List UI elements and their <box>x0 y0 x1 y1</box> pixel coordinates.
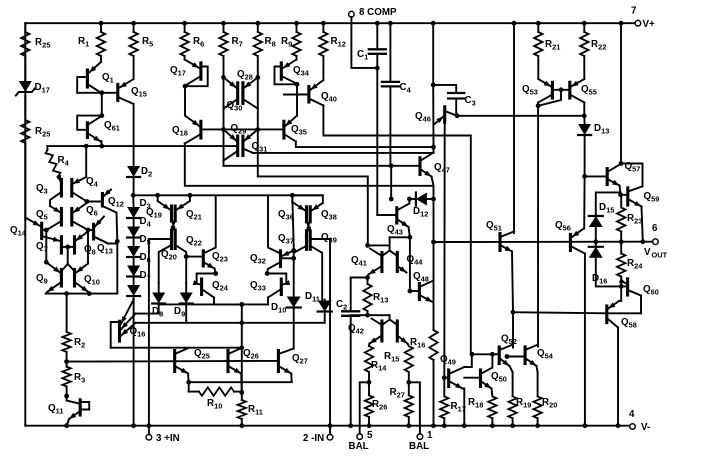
wire D8 D9 to Q24 node <box>159 303 242 305</box>
wire Q51 emitter to Q58 base <box>512 252 607 314</box>
diode D8 <box>158 283 160 293</box>
wire quad center link <box>67 247 69 264</box>
node 5 BAL terminal <box>357 434 363 440</box>
wire right quad column <box>94 237 108 244</box>
node 7 V+ terminal <box>635 20 641 26</box>
capacitor C4 <box>388 21 393 26</box>
svg-text:V-: V- <box>641 422 650 433</box>
wire Q16 collector bus to Q25 Q26 <box>111 347 242 349</box>
resistor R20 <box>537 372 539 396</box>
resistor R9 <box>294 21 299 26</box>
node 2 -IN terminal <box>327 434 333 440</box>
wire Q39 collector to D11 <box>310 246 322 300</box>
wire Q54 emitter to R20 <box>537 366 538 372</box>
wire Q25 emitter to R10 <box>187 374 190 392</box>
wire Q27 emitter return <box>189 374 292 383</box>
wire Q50 collector to Q52 base <box>491 354 493 367</box>
wire Q57 emitter to Q59 base <box>620 186 627 195</box>
wire -IN input column <box>312 239 330 426</box>
wire Q9 emitter to bus <box>47 282 61 292</box>
wire D8 to Q16 <box>136 304 159 314</box>
transistor Q48 <box>418 284 421 300</box>
wire +IN input column <box>149 239 170 426</box>
transistor Q58 <box>605 306 608 323</box>
resistor R19 <box>512 372 514 396</box>
wire C1 column to Q43 base <box>376 68 378 215</box>
transistor Q54 <box>524 347 527 364</box>
wire Q3 Q5 left link <box>50 192 61 206</box>
transistor Q40 <box>307 87 310 102</box>
svg-text:3 +IN: 3 +IN <box>156 433 180 444</box>
wire Q55 collector to D13 <box>570 95 585 103</box>
svg-text:V: V <box>644 247 651 258</box>
transistor Q51 <box>498 234 501 251</box>
transistor pair Q9 Q10 <box>60 270 63 287</box>
transistor Q61 <box>86 123 89 138</box>
svg-text:BAL: BAL <box>409 441 429 452</box>
wire D9 down <box>185 304 187 323</box>
transistor Q11 <box>66 387 68 397</box>
capacitor C2 <box>350 278 352 312</box>
transistor Q14 <box>40 223 43 238</box>
resistor R2 <box>66 294 68 332</box>
wire main column down through D12 Q48 R16 <box>433 186 435 242</box>
resistor R5 <box>131 21 136 26</box>
svg-text:V+: V+ <box>643 19 656 30</box>
wire Q8 feed <box>76 232 88 241</box>
wire Q19-Q22 cross links <box>172 218 176 233</box>
wire Q49 base column <box>444 377 447 379</box>
transistor Q57 <box>606 169 609 185</box>
svg-text:2 -IN: 2 -IN <box>303 433 324 444</box>
wire Q26 emitter column <box>240 374 243 393</box>
svg-text:BAL: BAL <box>349 441 369 452</box>
wire Q58 collector to V- <box>617 328 619 426</box>
resistor R27 <box>408 372 410 395</box>
wire Q19 emitter feed <box>157 195 159 201</box>
resistor R4 <box>46 146 48 150</box>
transistor pair Q5 Q6 <box>60 209 63 226</box>
wire Q52 base bus <box>472 353 498 355</box>
wire Q36-Q39 cross links <box>307 219 311 234</box>
wire Q36 emitter feed <box>291 195 293 202</box>
wire Q56 collector to V- <box>584 254 586 426</box>
resistor R10 <box>189 391 199 393</box>
transistor pair Q7 Q8 <box>60 237 63 253</box>
wire Q60 collector down <box>640 296 642 314</box>
node 3 +IN terminal <box>146 434 152 440</box>
transistor Q46 <box>443 107 446 123</box>
wire COMP to C1 bottom <box>351 17 377 68</box>
node 8 COMP terminal <box>349 11 355 17</box>
wire V+ top rail <box>25 22 634 24</box>
diode D6 <box>133 257 135 266</box>
wire D13 to Q57 base <box>582 174 587 179</box>
wire Q46 base column to Q49 <box>443 122 445 377</box>
transistor Q25 <box>173 351 176 372</box>
transistor Q34 <box>280 63 283 79</box>
wire bias node row y=146 <box>47 145 236 147</box>
resistor R12 <box>321 21 326 26</box>
diode D11 <box>318 301 332 312</box>
wire V+ to Q51 collector <box>512 21 517 26</box>
node 4 V- terminal <box>630 424 636 430</box>
wire C2 R13 Q42 node <box>351 314 368 316</box>
wire Q20 collector down to D8 <box>159 245 172 283</box>
node 1 BAL terminal <box>417 434 423 440</box>
wire C4 column to D12 <box>390 166 392 199</box>
svg-text:5: 5 <box>367 430 373 441</box>
wire R2 R3 junction <box>64 359 69 364</box>
resistor R24 <box>620 242 622 254</box>
resistor R16 <box>429 330 437 360</box>
wire Q40 collector bias bus <box>323 106 470 355</box>
transistor pair Q29 Q31 <box>236 136 239 155</box>
resistor R23 <box>620 195 622 208</box>
diode D12 <box>407 197 412 202</box>
wire Q21 emitter feed <box>189 195 191 201</box>
wire Q38 emitter feed <box>292 195 323 203</box>
transistor Q56 <box>569 234 572 250</box>
transistor pair Q19 Q21 <box>170 206 173 221</box>
transistor Q32 <box>279 251 282 267</box>
svg-text:7: 7 <box>631 6 637 17</box>
wire current mirror rail <box>133 194 323 196</box>
wire Q46 collector bus to D13 <box>457 115 584 117</box>
wire Q6 to Q13 node <box>72 221 88 230</box>
wire Q1 base node <box>77 92 116 94</box>
transistor pair Q28 Q30 <box>236 83 239 104</box>
wire Q4 feed from node <box>85 146 87 177</box>
diode D4 <box>133 218 135 227</box>
transistor Q59 <box>626 188 629 205</box>
capacitor C1 <box>375 21 380 26</box>
wire Q10 emitter to bus <box>75 282 89 292</box>
transistor Q16 <box>118 321 121 341</box>
transistor Q49 <box>447 370 450 387</box>
transistor Q12 <box>101 194 104 207</box>
resistor R17 <box>443 378 445 397</box>
transistor Q17 <box>199 63 202 79</box>
diode D15 <box>596 192 621 215</box>
wire second stage output bus <box>434 241 653 243</box>
wire Q16 bus to D11 <box>136 322 325 324</box>
transistor Q43 <box>395 208 398 223</box>
transistor Q52 <box>498 347 501 364</box>
svg-text:6: 6 <box>652 223 658 234</box>
wire Q32 base column to D10 <box>292 195 293 246</box>
wire Q41 emitter to R13 <box>368 275 369 278</box>
diode D5 <box>133 238 135 247</box>
wire Q53 collector column to Q54 <box>537 106 539 347</box>
wire Q14 collector to Q7 <box>42 236 61 241</box>
transistor pair Q3 Q4 <box>60 180 63 197</box>
resistor R11 <box>238 400 246 419</box>
wire Q49 emitter to V- <box>463 389 465 426</box>
transistor Q15 <box>116 84 119 100</box>
transistor pair Q41 Q44 <box>380 253 383 272</box>
resistor R18 <box>491 389 494 397</box>
diode D3 <box>127 207 140 218</box>
wire Q35 collector bus <box>296 142 434 148</box>
wire C2 to R13 top <box>351 277 368 279</box>
diode D16 <box>595 242 597 247</box>
svg-text:OUT: OUT <box>652 251 668 260</box>
transistor Q33 <box>280 279 283 295</box>
transistor Q50 <box>479 370 482 387</box>
wire left rail <box>24 23 26 426</box>
transistor Q26 <box>226 351 229 372</box>
wire Q18 Q35 base bus <box>201 128 282 130</box>
wire Q31 collector bus <box>253 152 434 154</box>
transistor Q24 <box>200 279 203 295</box>
wire Q14 node down to Q9 <box>45 230 47 262</box>
resistor R26 <box>368 372 370 395</box>
wire Q37 collector down <box>294 246 307 253</box>
resistor R6 <box>182 21 187 26</box>
diode D9 <box>185 283 187 293</box>
wire R7 column <box>223 56 225 166</box>
resistor R13 <box>367 278 369 285</box>
wire Q18 collector bus <box>185 144 434 186</box>
wire Q52 collector to Q51 emitter column <box>512 345 514 348</box>
wire Q25 base bus <box>67 360 277 363</box>
resistor R25 lower <box>21 120 29 143</box>
resistor R1 <box>99 21 104 26</box>
wire Q10 feed arrow <box>76 264 88 273</box>
transistor Q23 <box>202 251 205 266</box>
transistor Q47 <box>418 158 421 175</box>
diode D10 <box>293 258 295 296</box>
resistor R3 <box>66 352 68 367</box>
svg-text:1: 1 <box>427 430 433 441</box>
transistor pair Q53 Q55 <box>551 82 554 98</box>
wire Q50 base to Q49 emitter column <box>464 377 479 379</box>
transistor pair Q36 Q38 <box>305 207 308 222</box>
wire Q7 Q8 base tie <box>61 246 74 248</box>
resistor R21 <box>536 21 541 26</box>
wire Q5 to Q14 node <box>48 221 62 230</box>
wire Q54 base <box>507 356 524 358</box>
transistor Q42 pair <box>380 321 383 341</box>
zener diode D17 <box>24 56 26 81</box>
transistor Q13 <box>92 224 95 239</box>
transistor Q18 <box>199 121 202 138</box>
wire Q59 emitter to output <box>642 207 643 242</box>
node 6 VOUT terminal <box>653 239 659 245</box>
transistor Q35 <box>282 121 285 138</box>
wire D7 to Q16 and V- <box>133 296 135 300</box>
diode D7 <box>133 277 135 286</box>
wire Q41 feed bus <box>258 176 368 245</box>
diode D13 <box>578 124 591 135</box>
wire V- bottom rail <box>25 425 629 427</box>
svg-text:8 COMP: 8 COMP <box>359 7 397 18</box>
wire Q17 collector to Q18 <box>184 86 186 115</box>
wire Q34 collector to Q35 <box>296 84 298 115</box>
resistor R7 <box>221 21 226 26</box>
wire quad bottom bus <box>46 293 118 295</box>
transistor pair Q37 Q39 <box>305 231 308 250</box>
wire V+ to Q46 <box>431 21 436 26</box>
svg-text:4: 4 <box>629 409 635 420</box>
wire Q4 Q6 right link <box>72 192 87 202</box>
wire Q52 emitter to R19 <box>510 366 513 372</box>
resistor R14 <box>368 344 371 347</box>
wire Q47 base bus <box>224 165 420 167</box>
resistor R25 upper <box>24 23 26 32</box>
wire Q57 collector to Q59 collector <box>621 164 643 187</box>
resistor R15 <box>408 344 409 347</box>
transistor Q60 <box>626 279 629 295</box>
wire R8 column <box>257 56 259 176</box>
wire D13 column to Q56 emitter <box>583 176 585 228</box>
wire Q22 collector down to D9 <box>175 245 186 257</box>
wire Q31 collector to bus <box>243 149 253 153</box>
resistor R22 <box>582 21 587 26</box>
wire center column Q24 node down <box>241 304 243 392</box>
wire Q43 emitter node down to Q48 base <box>409 237 411 291</box>
wire Q51 emitter column to Q52 <box>512 312 514 347</box>
transistor Q27 <box>277 351 280 372</box>
wire Q49 collector to Q52 base node <box>464 354 472 367</box>
capacitor C3 <box>433 85 456 93</box>
transistor Q1 <box>86 70 89 87</box>
resistor R8 <box>255 21 260 26</box>
wire V+ right column <box>619 21 624 26</box>
transistor pair Q20 Q22 <box>170 230 173 249</box>
diode D2 <box>133 104 135 166</box>
wire Q24 Q33 emitter bus <box>214 303 268 305</box>
